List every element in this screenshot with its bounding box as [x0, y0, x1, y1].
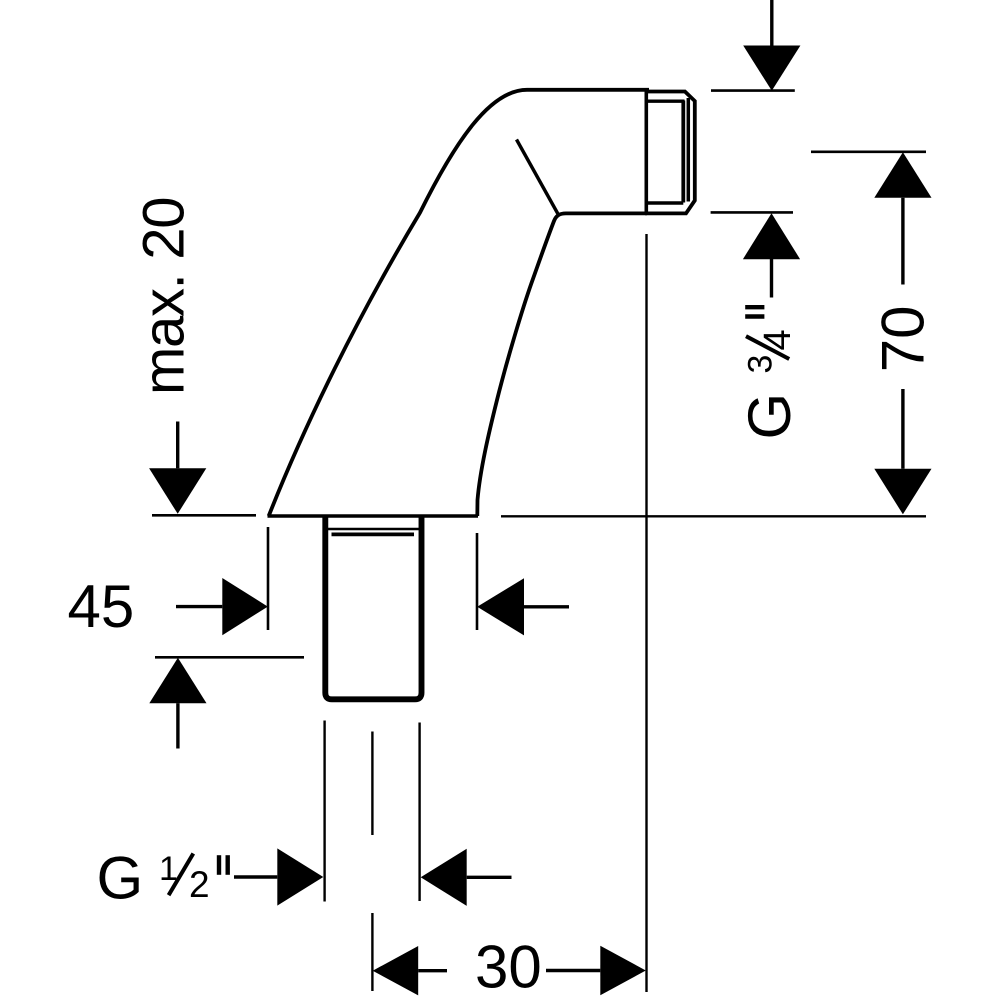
- svg-text:G: G: [736, 393, 803, 440]
- spout crease line: [517, 140, 559, 215]
- label G 3/4 inch: [736, 307, 803, 439]
- dim line 30 right: [546, 969, 600, 972]
- arrowhead left G12: [421, 849, 467, 906]
- arrowhead right 45: [222, 578, 267, 635]
- arrowhead up max20: [149, 658, 206, 704]
- tick 45 right: [476, 533, 479, 630]
- arrowhead down 70: [874, 469, 931, 515]
- arrowhead down max20: [149, 468, 206, 514]
- center line lower dash: [371, 913, 373, 991]
- baseline right long: [501, 515, 926, 517]
- thread inner bottom line: [648, 201, 683, 204]
- svg-text:max. 20: max. 20: [132, 198, 197, 395]
- tick at thread bottom: [711, 211, 793, 214]
- dim line 70 upper: [901, 198, 904, 285]
- svg-text:G: G: [97, 845, 144, 912]
- tick 70 top: [811, 151, 926, 154]
- arrowhead left 45: [477, 578, 524, 635]
- dim line max20 lower: [176, 703, 179, 748]
- arrowhead up to thread bottom: [743, 213, 800, 259]
- thread end-face vertical: [687, 98, 691, 202]
- dim line top from edge: [770, 0, 773, 46]
- svg-text:3: 3: [742, 355, 780, 374]
- svg-text:45: 45: [68, 573, 135, 640]
- extension line stub left: [323, 721, 325, 902]
- thread top edge with chamfer: [645, 92, 695, 214]
- dim line G12 right: [467, 876, 512, 879]
- label G 1/2 inch: [97, 845, 228, 912]
- svg-text:2: 2: [189, 864, 210, 905]
- svg-text:30: 30: [475, 934, 542, 1000]
- arrowhead right 30: [600, 946, 646, 995]
- tap body right profile with shoulder lip: [477, 213, 647, 516]
- dim line 70 lower: [901, 389, 904, 469]
- baseline tick left: [152, 514, 256, 517]
- dim line 30 left: [418, 969, 447, 972]
- dim line G12 left: [234, 875, 277, 878]
- svg-text:70: 70: [869, 305, 936, 372]
- arrowhead up 70: [874, 152, 931, 198]
- long extension line from thread axis: [645, 234, 647, 992]
- stub neck line thin: [328, 528, 419, 531]
- dim line 45 right: [524, 605, 569, 608]
- dim line 45 left: [176, 605, 222, 608]
- arrowhead down to thread top: [743, 46, 800, 91]
- extension line stub right: [418, 723, 420, 902]
- arrowhead left 30: [373, 946, 419, 995]
- thread connector G3/4: left shoulder vertical: [644, 88, 648, 214]
- svg-text:4: 4: [757, 329, 799, 350]
- thread inner top line: [648, 99, 685, 102]
- stub thread start line: [332, 533, 415, 537]
- dim line max20 upper: [176, 422, 179, 469]
- tap body outline left+top: [269, 90, 649, 516]
- tick 45 left: [267, 527, 270, 630]
- threaded stub G1/2 outer outline: [325, 517, 421, 699]
- tap body bottom edge: [268, 514, 479, 517]
- tick max20 lower: [155, 656, 304, 659]
- thread root vertical: [681, 101, 685, 203]
- dim line below G3/4 arrow: [770, 259, 773, 298]
- arrowhead right G12: [277, 848, 323, 905]
- tick at thread top: [711, 89, 795, 92]
- center line upper dash: [371, 732, 373, 836]
